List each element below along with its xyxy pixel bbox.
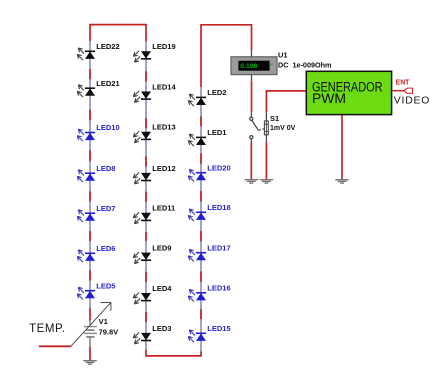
- LED LED13: [133, 123, 175, 143]
- svg-text:LED19: LED19: [152, 42, 175, 51]
- svg-text:TEMP.: TEMP.: [29, 323, 65, 335]
- LED LED1: [188, 128, 226, 146]
- wire: [145, 71, 147, 81]
- LED LED11: [133, 204, 175, 224]
- wire: [89, 110, 91, 121]
- LED LED19: [133, 42, 175, 62]
- LED LED8: [77, 164, 115, 182]
- wire: [200, 231, 202, 241]
- wire: [250, 139, 252, 143]
- battery V1: [71, 303, 118, 347]
- svg-text:PWM: PWM: [312, 91, 346, 106]
- ground: [83, 361, 97, 364]
- wire: [200, 191, 202, 201]
- wire: [265, 112, 267, 121]
- LED LED6: [77, 244, 115, 262]
- LED LED3: [133, 324, 171, 344]
- svg-text:LED8: LED8: [96, 164, 115, 173]
- svg-text:1mV 0V: 1mV 0V: [270, 125, 296, 132]
- svg-text:LED18: LED18: [207, 203, 230, 212]
- wire: [89, 337, 91, 347]
- LED LED20: [188, 163, 230, 181]
- wire: [200, 309, 202, 319]
- svg-text:LED14: LED14: [152, 82, 176, 91]
- switch S1 contact: [250, 117, 265, 139]
- wire: [265, 135, 267, 143]
- svg-text:LED21: LED21: [96, 79, 119, 88]
- LED LED5: [77, 281, 115, 299]
- svg-text:LED15: LED15: [207, 324, 230, 333]
- wire: [250, 143, 252, 180]
- wire: [89, 321, 91, 327]
- wire: [200, 271, 202, 281]
- svg-text:LED10: LED10: [96, 123, 119, 132]
- svg-text:ENT: ENT: [396, 80, 411, 87]
- switch S1 actuator: [264, 114, 295, 135]
- wire: [341, 115, 343, 180]
- svg-text:LED22: LED22: [96, 42, 119, 51]
- svg-text:U1: U1: [278, 51, 288, 60]
- wire: [89, 309, 91, 321]
- LED LED12: [133, 164, 175, 184]
- svg-text:LED20: LED20: [207, 163, 230, 172]
- svg-text:LED12: LED12: [152, 164, 175, 173]
- wire: [200, 153, 202, 163]
- ground: [260, 180, 274, 183]
- wire: [145, 272, 147, 282]
- LED LED7: [77, 204, 115, 222]
- wire: [251, 81, 253, 112]
- svg-text:LED2: LED2: [207, 88, 226, 97]
- LED LED18: [188, 203, 230, 221]
- wire: [200, 87, 202, 351]
- LED LED9: [133, 244, 171, 264]
- svg-text:LED3: LED3: [152, 324, 171, 333]
- svg-text:LED7: LED7: [96, 204, 115, 213]
- ammeter U1: [231, 51, 332, 75]
- wire: [145, 156, 147, 166]
- wire: [89, 231, 91, 241]
- svg-text:LED5: LED5: [96, 281, 115, 290]
- LED LED17: [188, 243, 230, 261]
- LED LED21: [77, 79, 119, 97]
- wire: [89, 41, 91, 310]
- svg-text:S1: S1: [270, 114, 279, 123]
- wire: [89, 150, 91, 161]
- LED LED15: [188, 324, 230, 342]
- svg-text:LED13: LED13: [152, 123, 175, 132]
- ground: [245, 180, 259, 183]
- wire: [145, 312, 147, 322]
- svg-text:VIDEO: VIDEO: [394, 95, 430, 106]
- svg-text:LED4: LED4: [152, 284, 172, 293]
- svg-text:LED11: LED11: [152, 204, 175, 213]
- wire: [89, 69, 91, 79]
- svg-text:LED1: LED1: [207, 128, 226, 137]
- wire: [39, 345, 71, 347]
- svg-text:0.198: 0.198: [240, 63, 257, 70]
- wire: [89, 270, 91, 280]
- wire: [89, 191, 91, 201]
- wire: [251, 75, 253, 81]
- LED LED22: [77, 42, 119, 60]
- wire: [89, 347, 91, 360]
- terminal ENT: [392, 80, 413, 94]
- wire: [145, 118, 147, 128]
- svg-text:LED6: LED6: [96, 244, 115, 253]
- LED LED16: [188, 284, 230, 302]
- svg-text:LED17: LED17: [207, 243, 230, 252]
- LED LED4: [133, 284, 172, 304]
- svg-text:DC 1e-009Ohm: DC 1e-009Ohm: [278, 61, 332, 70]
- LED LED2: [188, 88, 226, 106]
- wire: [201, 25, 252, 87]
- LED LED10: [77, 123, 119, 141]
- wire: [250, 112, 252, 117]
- wire: [145, 192, 147, 202]
- wire: [145, 42, 147, 350]
- wire: [145, 232, 147, 241]
- wire: [266, 91, 306, 113]
- wire: [265, 142, 267, 179]
- subcircuit GENERADOR PWM: [306, 71, 391, 114]
- wire: [251, 50, 253, 57]
- svg-text:LED9: LED9: [152, 244, 171, 253]
- wire: [200, 116, 202, 126]
- wire: [146, 349, 201, 356]
- wire: [90, 25, 146, 42]
- svg-text:V1: V1: [99, 317, 108, 326]
- ground: [335, 180, 349, 183]
- LED LED14: [133, 82, 176, 102]
- svg-text:LED16: LED16: [207, 284, 230, 293]
- svg-text:79.8V: 79.8V: [99, 327, 119, 336]
